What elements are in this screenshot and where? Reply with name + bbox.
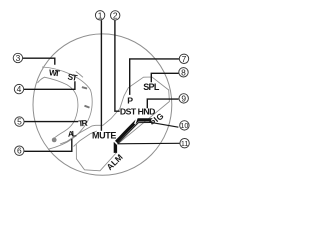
svg-text:TR: TR: [78, 118, 88, 129]
svg-text:AL: AL: [68, 129, 77, 138]
white slash at bar elbow: [114, 141, 119, 146]
callout 2: [111, 10, 120, 20]
svg-text:8: 8: [181, 67, 186, 77]
tick dash upper: [82, 86, 88, 89]
gray dot: [52, 138, 57, 143]
svg-text:7: 7: [182, 54, 187, 64]
leader 4: [24, 81, 75, 89]
leader 3: [23, 58, 55, 65]
thin parallel line under hand: [118, 123, 151, 144]
watch case ellipse: [33, 34, 172, 175]
svg-text:DST HND: DST HND: [120, 107, 155, 117]
leader 1: [100, 20, 102, 131]
svg-text:1: 1: [98, 10, 103, 20]
callout 7: [179, 54, 188, 64]
svg-text:5: 5: [17, 117, 22, 127]
mode band outer arc: [42, 67, 92, 149]
svg-text:9: 9: [181, 93, 186, 103]
callout 5: [15, 117, 24, 127]
callout 6: [15, 146, 24, 156]
callout 8: [179, 67, 188, 77]
callout 10: [180, 121, 189, 130]
leader 7: [130, 59, 179, 95]
callout 1: [95, 10, 104, 20]
tick dash lower: [84, 105, 90, 109]
svg-text:3: 3: [16, 53, 21, 63]
svg-text:11: 11: [181, 139, 188, 148]
window bottom outline: [76, 144, 116, 171]
white slash at bar joint: [135, 116, 138, 124]
leader 8: [151, 73, 178, 82]
svg-text:P: P: [127, 95, 133, 105]
leader 11: [117, 142, 179, 145]
svg-text:SPL: SPL: [143, 82, 160, 92]
svg-text:2: 2: [113, 10, 118, 20]
svg-text:WT: WT: [49, 67, 62, 78]
svg-text:4: 4: [17, 84, 22, 94]
callout 11: [180, 139, 189, 148]
leader 5: [24, 121, 78, 123]
LCD window outline main path: [60, 77, 169, 144]
svg-text:10: 10: [180, 121, 188, 130]
leader 2: [115, 20, 120, 111]
inner ring short arc: [76, 72, 83, 78]
leader 10: [151, 122, 178, 127]
mode band inner arc: [38, 77, 78, 139]
callout 4: [14, 84, 23, 94]
leader 6: [24, 139, 72, 151]
svg-text:MUTE: MUTE: [92, 130, 116, 140]
hand bar: [115, 120, 151, 153]
leader 9: [147, 99, 178, 108]
window lower-left inner diagonal: [74, 131, 97, 147]
callout 9: [179, 93, 188, 103]
callout 3: [13, 53, 22, 63]
svg-text:6: 6: [17, 146, 22, 156]
